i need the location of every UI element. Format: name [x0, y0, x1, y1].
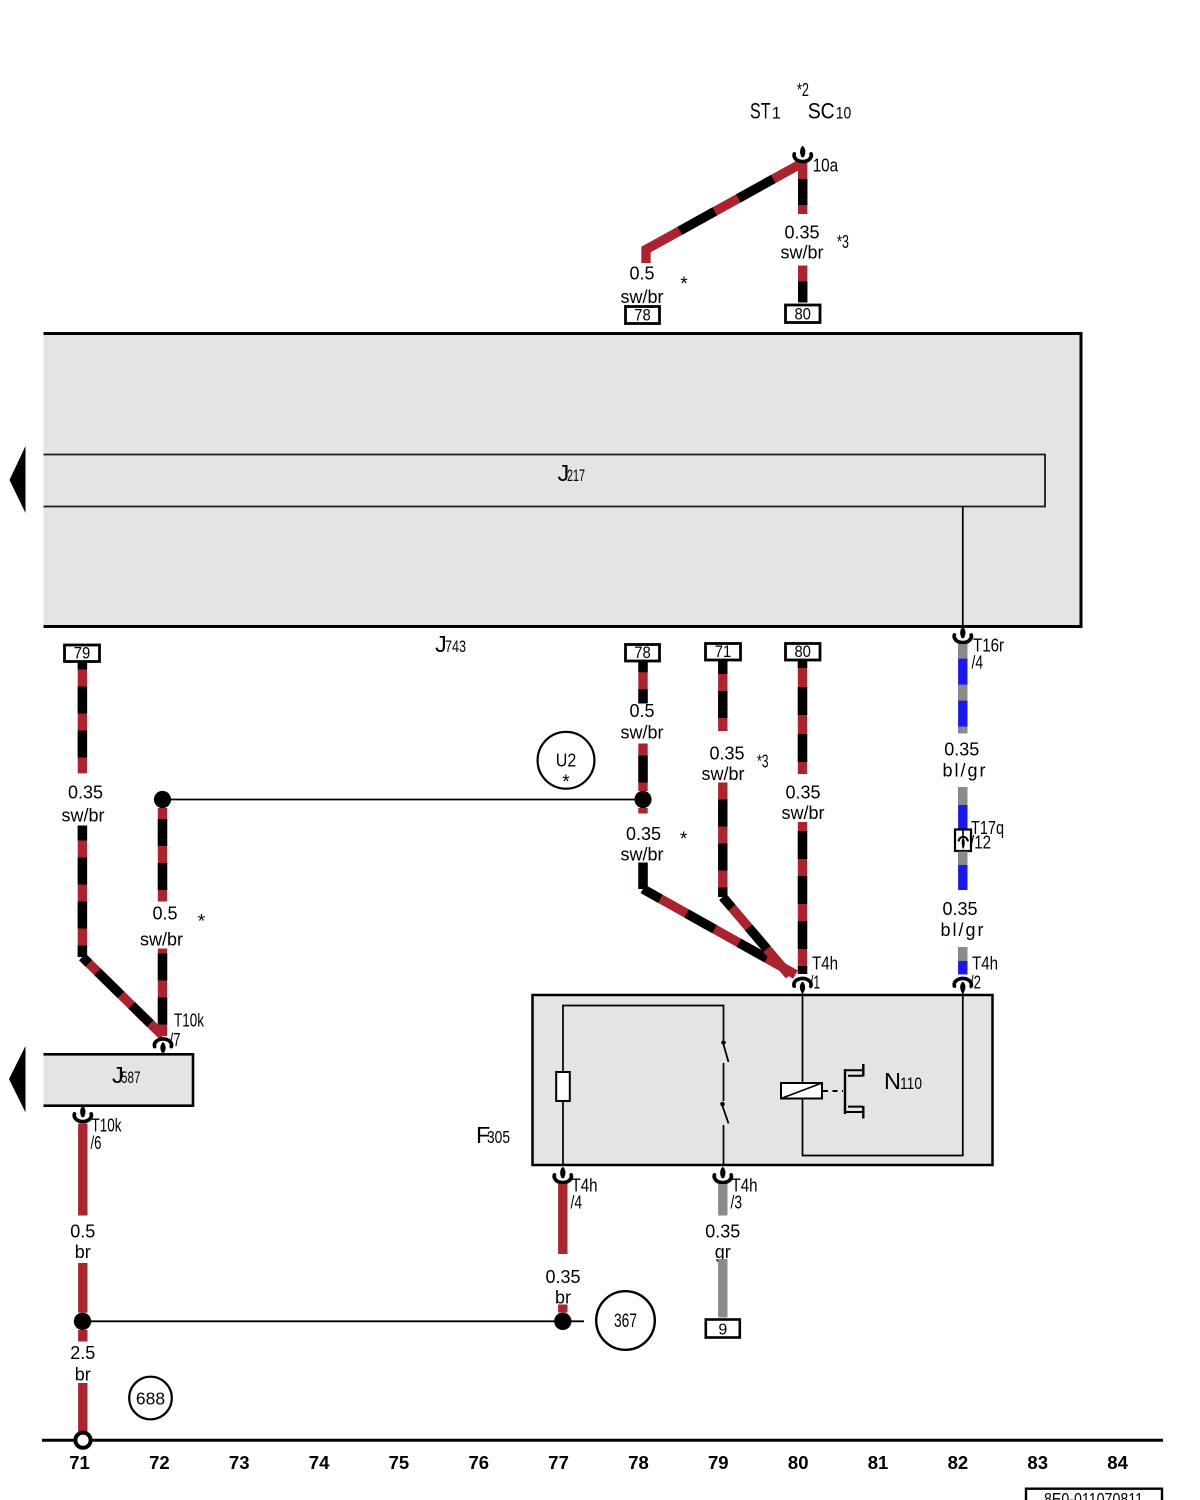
junction node (left, track 72)	[154, 791, 171, 808]
ground designation circle 688	[129, 1377, 172, 1420]
svg-text:*: *	[198, 912, 206, 933]
svg-text:/4: /4	[571, 1193, 583, 1213]
wire thin vertical inside J217 to T16r	[962, 507, 964, 629]
ground designation circle 367	[596, 1291, 655, 1350]
svg-text:72: 72	[149, 1452, 170, 1473]
svg-text:br: br	[75, 1365, 91, 1385]
wire 0.35 sw/br *3 below terminal 71	[718, 660, 727, 731]
junction node (ground rail, track 71)	[74, 1313, 91, 1330]
inner box J217	[44, 455, 1046, 507]
wire 0.5 br from T10k/6	[78, 1124, 87, 1216]
svg-text:*: *	[680, 274, 688, 295]
terminal box 80 (top)	[786, 305, 821, 323]
wire sw/br diagonal from track 79 to connector T4h/1	[723, 897, 790, 976]
svg-text:0.35: 0.35	[944, 740, 979, 760]
ground node circle	[75, 1433, 90, 1448]
wire thin from coil to T4h/2 (return)	[803, 990, 963, 1156]
connector T4h/3	[714, 1167, 731, 1183]
svg-text:305: 305	[487, 1127, 510, 1147]
svg-text:sw/br: sw/br	[620, 845, 663, 865]
svg-text:*: *	[680, 829, 688, 850]
svg-text:br: br	[75, 1242, 91, 1262]
svg-text:0.35: 0.35	[942, 899, 977, 919]
svg-text:/7: /7	[170, 1030, 181, 1050]
resistor (sender element)	[556, 1072, 570, 1101]
svg-text:T4h: T4h	[972, 954, 998, 974]
svg-text:217: 217	[567, 466, 585, 485]
svg-text:75: 75	[389, 1452, 410, 1473]
drawing number box 8E0-011070811	[1026, 1489, 1162, 1500]
svg-text:80: 80	[794, 306, 811, 324]
svg-text:*3: *3	[837, 231, 849, 252]
svg-text:10: 10	[836, 105, 852, 123]
svg-text:80: 80	[788, 1452, 809, 1473]
svg-text:78: 78	[634, 307, 651, 325]
switch contact (lower)	[720, 1102, 725, 1107]
svg-text:N: N	[884, 1068, 901, 1094]
terminal box 78 (top)	[626, 307, 660, 324]
svg-text:82: 82	[948, 1452, 969, 1473]
wire 0.5 sw/br below terminal 78	[638, 661, 647, 703]
wire thin horizontal between junctions	[163, 799, 644, 801]
svg-text:/1: /1	[810, 973, 820, 993]
svg-text:74: 74	[309, 1452, 330, 1473]
wire sw/br diagonal from track 71 down to connector T10k/7	[82, 957, 163, 1036]
svg-text:sw/br: sw/br	[140, 930, 183, 950]
svg-text:76: 76	[469, 1452, 490, 1473]
wire 2.5 br to ground	[78, 1330, 87, 1342]
svg-text:*: *	[562, 772, 570, 793]
driver (electronic switch) symbol	[844, 1069, 846, 1114]
symbol U2 circle	[538, 732, 595, 789]
svg-text:9: 9	[718, 1322, 727, 1339]
wire sw/br diagonal from track 78 to connector T4h/1	[643, 889, 796, 975]
connector T4h/2	[954, 978, 971, 992]
svg-text:0.35: 0.35	[68, 783, 103, 803]
svg-text:0.35: 0.35	[784, 223, 819, 243]
svg-text:T10k: T10k	[174, 1011, 205, 1031]
svg-text:bl/gr: bl/gr	[942, 761, 987, 781]
wire 0.35 sw/br from terminal 79 (track 71)	[78, 662, 87, 774]
svg-text:78: 78	[634, 644, 651, 662]
svg-text:71: 71	[69, 1452, 90, 1473]
svg-text:80: 80	[794, 643, 811, 661]
svg-text:U2: U2	[556, 750, 577, 771]
wire thin (sensor branch) inside F305	[563, 1006, 724, 1073]
svg-text:71: 71	[715, 643, 732, 661]
terminal box 78 (row under J217)	[626, 645, 660, 662]
svg-text:8E0-011070811: 8E0-011070811	[1044, 1489, 1143, 1500]
svg-text:0.5: 0.5	[629, 701, 654, 721]
arrow (continuation, left of J587)	[9, 1046, 26, 1113]
svg-text:*3: *3	[757, 751, 769, 772]
svg-text:0.35: 0.35	[709, 744, 744, 764]
track numbers	[69, 1452, 1128, 1473]
svg-text:/2: /2	[970, 973, 981, 993]
svg-text:688: 688	[136, 1389, 165, 1409]
connector T10k/7	[154, 1039, 171, 1053]
wire 0.35 bl/gr from T16r	[958, 644, 967, 734]
svg-text:ST: ST	[750, 99, 771, 124]
svg-text:SC: SC	[808, 99, 835, 124]
svg-text:0.5: 0.5	[152, 904, 177, 924]
svg-text:73: 73	[229, 1452, 250, 1473]
wire 0.35 gr from T4h/3	[718, 1184, 727, 1216]
connector T17q/12 (in-line)	[955, 830, 971, 852]
svg-text:0.5: 0.5	[70, 1222, 95, 1242]
connector T16r/4	[954, 627, 971, 643]
connector T10k/6	[74, 1106, 91, 1122]
track rail (bottom line)	[42, 1439, 1163, 1442]
wire thin from T4h/1 to valve coil	[802, 990, 804, 1084]
svg-text:0.35: 0.35	[626, 824, 661, 844]
svg-text:83: 83	[1027, 1452, 1048, 1473]
svg-text:sw/br: sw/br	[701, 764, 744, 784]
arrow (continuation, left of J217)	[10, 446, 26, 513]
svg-text:sw/br: sw/br	[620, 287, 663, 307]
svg-text:sw/br: sw/br	[781, 803, 824, 823]
svg-text:1: 1	[772, 105, 781, 123]
wire 0.5 sw/br from left junction down to T10k/7	[158, 808, 167, 902]
svg-text:2.5: 2.5	[70, 1343, 95, 1363]
switch contact (upper)	[721, 1040, 726, 1045]
svg-text:81: 81	[868, 1452, 889, 1473]
svg-text:sw/br: sw/br	[61, 806, 104, 826]
svg-text:/4: /4	[972, 653, 984, 673]
wire 0.35 bl/gr below T17q	[958, 852, 967, 891]
junction node (track 77)	[554, 1313, 571, 1330]
wire 0.35 br from T4h/4	[558, 1184, 567, 1254]
svg-text:79: 79	[74, 645, 91, 663]
wire sw/br diagonal from connector 10a to track 78	[646, 165, 800, 264]
wire thin horizontal ground link	[83, 1320, 585, 1322]
svg-text:78: 78	[628, 1452, 649, 1473]
connector T4h/4	[554, 1167, 571, 1183]
svg-text:367: 367	[614, 1311, 637, 1332]
svg-text:77: 77	[548, 1452, 569, 1473]
svg-text:/12: /12	[970, 833, 991, 853]
terminal box 80 (row under J217)	[786, 644, 821, 661]
svg-text:10a: 10a	[813, 156, 839, 176]
terminal box 71 (row under J217)	[706, 644, 741, 661]
component box F305	[533, 995, 993, 1165]
svg-text:sw/br: sw/br	[780, 243, 823, 263]
wire 0.35 sw/br below right junction	[638, 808, 647, 814]
svg-text:79: 79	[708, 1452, 729, 1473]
svg-text:/6: /6	[91, 1133, 102, 1153]
connector T4h/1	[794, 978, 811, 992]
svg-text:/3: /3	[731, 1193, 743, 1213]
svg-text:84: 84	[1107, 1452, 1128, 1473]
control unit box J587	[44, 1056, 193, 1105]
svg-text:587: 587	[121, 1068, 141, 1087]
svg-text:sw/br: sw/br	[620, 723, 663, 743]
svg-text:110: 110	[900, 1074, 922, 1093]
terminal box 9	[706, 1320, 740, 1338]
svg-text:bl/gr: bl/gr	[940, 920, 985, 940]
svg-text:0.35: 0.35	[545, 1267, 580, 1287]
svg-text:0.35: 0.35	[785, 783, 820, 803]
wire 0.35 sw/br below terminal 80	[798, 660, 807, 774]
svg-text:0.35: 0.35	[705, 1222, 740, 1242]
connector 10a	[794, 146, 811, 162]
wire 0.35 sw/br vertical below connector 10a	[798, 163, 807, 214]
svg-text:743: 743	[445, 637, 466, 656]
dashed control link	[823, 1090, 843, 1092]
junction node (right, track 78)	[634, 791, 651, 808]
svg-text:T4h: T4h	[812, 954, 838, 974]
terminal box 79 (row under J217)	[65, 645, 100, 662]
svg-text:0.5: 0.5	[629, 264, 654, 284]
svg-text:*2: *2	[797, 79, 809, 100]
control unit box J217 (outer)	[44, 334, 1081, 626]
valve coil N110	[781, 1083, 822, 1099]
